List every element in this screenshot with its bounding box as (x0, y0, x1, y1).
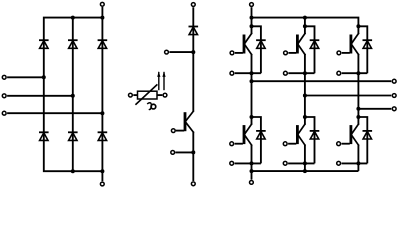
wire phase output 2 (305, 95, 391, 97)
wire lower emitter junction 1 (235, 162, 261, 164)
wire phase output 3 (358, 108, 391, 110)
wire inverter DC+ lead (251, 7, 253, 17)
wire upper collector 1 (251, 26, 253, 34)
wire chopper emitter line (192, 132, 194, 181)
wire phase output 1 (252, 80, 392, 82)
wire phase vertical 3 (357, 54, 359, 125)
wire phase vertical 2 (304, 54, 306, 125)
wire AC input 2 (7, 95, 73, 97)
wire phase vertical 1 (251, 54, 253, 125)
diode D4 rectifier lower (39, 132, 49, 140)
diode D1 rectifier upper (39, 40, 49, 48)
node phase output tap 2 (303, 94, 307, 98)
wire rectifier leg 3 with DC leads (101, 7, 103, 181)
wire gate Q6 (342, 143, 350, 145)
terminal phase output 2 (392, 94, 396, 98)
node inv bottom rail leg2 (303, 169, 307, 173)
terminal emitter sense Q2 (284, 71, 288, 75)
wire upper collector 3 (357, 26, 359, 34)
node AC junction 1 (42, 75, 46, 79)
wire upper diode branch 2 (305, 26, 315, 73)
wire upper emitter junction 1 (235, 72, 261, 74)
wire lower emitter drop 1 (251, 145, 253, 180)
node chopper emitter junction (191, 150, 195, 154)
terminal gate Q2 (284, 51, 288, 55)
wire rectifier leg 2 (72, 18, 74, 172)
node bottom rail leg2 (71, 169, 75, 173)
transistor Q7 brake chopper IGBT (184, 111, 194, 132)
terminal phase output 1 (392, 79, 396, 83)
node top rail leg3 (100, 16, 104, 20)
node upper branch 1 (250, 24, 254, 28)
node upper branch 3 (356, 24, 360, 28)
node lower branch 2 (303, 115, 307, 119)
wire upper emitter junction 2 (288, 72, 314, 74)
wire gate Q2 (288, 52, 296, 54)
diode D2 rectifier upper (68, 40, 78, 48)
transistor Q4 lower IGBT (243, 124, 252, 145)
terminal phase output 3 (392, 107, 396, 111)
wire chopper collector line (192, 7, 194, 111)
diode D16 lower freewheel (363, 131, 373, 139)
terminal gate Q1 (230, 51, 234, 55)
node lower branch 3 (356, 115, 360, 119)
wire AC input 3 (7, 112, 102, 114)
node lower emitter junction 2 (303, 161, 307, 165)
terminal emitter sense Q4 (230, 161, 234, 165)
wire gate Q3 (342, 52, 350, 54)
wire gate Q4 (235, 143, 243, 145)
terminal gate Q6 (337, 142, 341, 146)
wire thermistor left (133, 94, 137, 96)
terminal chopper gate (171, 129, 175, 133)
diode D11 upper freewheel (256, 40, 266, 48)
wire collector drop phase 2 (304, 18, 306, 27)
terminal chopper bottom (191, 182, 195, 186)
transistor Q3 upper IGBT (350, 34, 359, 55)
wire upper emitter junction 3 (342, 72, 368, 74)
wire rectifier rail loop (44, 18, 103, 172)
node upper emitter junction 2 (303, 71, 307, 75)
node lower emitter junction 1 (250, 161, 254, 165)
node bottom rail leg3 (100, 169, 104, 173)
wire gate Q5 (288, 143, 296, 145)
thermistor diagonal (136, 85, 157, 104)
thermistor body (138, 91, 158, 99)
wire upper diode branch 1 (252, 26, 261, 73)
diode D5 rectifier lower (68, 132, 78, 140)
node AC junction 3 (100, 111, 104, 115)
terminal DC- rectifier (100, 182, 104, 186)
node upper emitter junction 3 (356, 71, 360, 75)
terminal thermistor left (129, 93, 133, 97)
terminal AC input 1 (2, 75, 6, 79)
wire chopper emitter sense (175, 151, 193, 153)
node AC junction 2 (71, 94, 75, 98)
terminal gate Q4 (230, 142, 234, 146)
transistor Q1 upper IGBT (243, 34, 252, 55)
node lower emitter junction 3 (356, 161, 360, 165)
wire chopper gate (176, 130, 184, 132)
node top rail leg2 (71, 16, 75, 20)
wire lower emitter drop 3 (357, 145, 359, 172)
wire thermistor right (157, 94, 162, 96)
node inv top rail leg2 (303, 16, 307, 20)
diode D13 upper freewheel (363, 40, 373, 48)
terminal thermistor right (163, 93, 167, 97)
wire inverter top rail (252, 18, 359, 27)
diode D15 lower freewheel (310, 131, 320, 139)
diode D14 lower freewheel (256, 131, 266, 139)
terminal chopper emitter sense (171, 151, 175, 155)
thermistor arrow 2 (162, 71, 165, 89)
wire lower diode branch 1 (252, 117, 261, 163)
terminal DC+ rectifier (100, 2, 104, 6)
wire upper diode branch 3 (358, 26, 367, 73)
transistor Q5 lower IGBT (296, 124, 305, 145)
terminal chopper top (191, 3, 195, 7)
node inv top rail leg1 (250, 16, 254, 20)
terminal chopper tap (165, 50, 169, 54)
wire upper collector 2 (304, 26, 306, 34)
node upper emitter junction 1 (250, 71, 254, 75)
diode D12 upper freewheel (310, 40, 320, 48)
wire lower emitter junction 2 (288, 162, 314, 164)
transistor Q6 lower IGBT (350, 124, 359, 145)
thermistor arrow 1 (157, 71, 160, 89)
node chopper tap (191, 50, 195, 54)
wire lower diode branch 3 (358, 117, 367, 163)
terminal emitter sense Q5 (283, 161, 287, 165)
wire gate Q1 (235, 52, 243, 54)
wire lower emitter junction 3 (342, 162, 368, 164)
thermistor theta mark (147, 103, 156, 110)
node phase output tap 3 (356, 107, 360, 111)
terminal emitter sense Q6 (337, 161, 341, 165)
wire collector drop phase 1 (251, 18, 253, 27)
terminal emitter sense Q3 (337, 71, 341, 75)
wire chopper tap (169, 51, 193, 53)
wire lower emitter drop 2 (304, 145, 306, 172)
terminal AC input 2 (2, 94, 6, 98)
node upper branch 2 (303, 24, 307, 28)
diode D6 rectifier lower (98, 132, 108, 140)
node inv bottom rail leg1 (250, 169, 254, 173)
wire inverter bottom rail (252, 170, 359, 172)
terminal inverter DC+ (250, 3, 254, 7)
transistor Q2 upper IGBT (296, 34, 305, 55)
terminal inverter DC- (250, 181, 254, 185)
node phase output tap 1 (250, 79, 254, 83)
terminal emitter sense Q1 (230, 71, 234, 75)
diode D7 chopper (189, 27, 199, 35)
wire lower diode branch 2 (305, 117, 315, 163)
terminal AC input 3 (2, 111, 6, 115)
wire AC input 1 (7, 76, 44, 78)
node lower branch 1 (250, 115, 254, 119)
diode D3 rectifier upper (98, 40, 108, 48)
terminal gate Q5 (283, 142, 287, 146)
terminal gate Q3 (337, 51, 341, 55)
